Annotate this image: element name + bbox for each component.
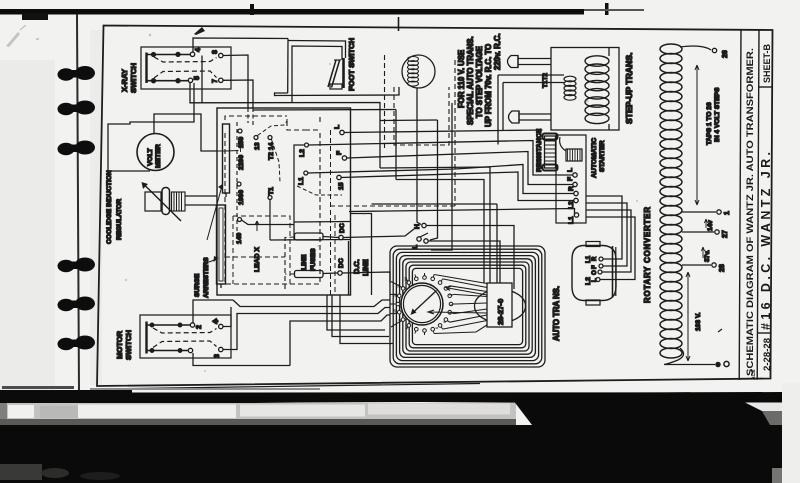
wire down to fan c — [372, 204, 498, 284]
svg-text:L2: L2 — [568, 201, 575, 209]
svg-text:REGULATOR: REGULATOR — [116, 199, 123, 240]
primary big coil — [585, 56, 609, 124]
auto transformer enclosure box — [217, 108, 351, 295]
wire bus y120 — [380, 119, 438, 122]
wire bus y103 — [190, 103, 380, 121]
rotary converter — [572, 242, 616, 306]
converter wires to starter — [586, 196, 622, 259]
nested winding loops — [390, 246, 545, 367]
terminal 15 — [337, 175, 341, 179]
terminal DC1 — [339, 235, 343, 239]
fan wires — [434, 275, 487, 334]
svg-text:250: 250 — [238, 136, 245, 148]
fuse feed dashed riser — [285, 237, 295, 291]
page edge line — [77, 14, 79, 393]
inner dashed sub-box — [233, 216, 290, 284]
pedal plate — [342, 58, 345, 88]
dashed aux wire — [330, 205, 455, 207]
motor switch S2 — [140, 315, 231, 358]
right paper margin — [782, 383, 800, 483]
svg-text:FOOT SWITCH: FOOT SWITCH — [347, 38, 356, 91]
svg-text:37v.: 37v. — [704, 250, 711, 262]
tap 27 — [682, 231, 714, 233]
tap 1900 — [237, 182, 241, 186]
svg-text:AUTOMATIC: AUTOMATIC — [591, 138, 598, 178]
arrow to arrester 1 — [207, 186, 222, 240]
svg-text:2: 2 — [449, 294, 453, 296]
wire 140 right — [242, 220, 295, 225]
wire w2 — [223, 307, 231, 327]
svg-text:28-27-0: 28-27-0 — [496, 299, 505, 325]
volt meter M1 — [137, 114, 217, 171]
wire w7 dc drop — [340, 295, 393, 344]
wire y240 — [270, 239, 351, 242]
wire L bus — [344, 130, 543, 133]
wire v1 from special trans down to H — [417, 88, 421, 225]
wire fuse1 to DC1 — [323, 237, 339, 238]
light gap band — [0, 403, 516, 425]
svg-text:7: 7 — [212, 79, 219, 83]
svg-text:LINE: LINE — [301, 254, 308, 270]
svg-text:2-28-28: 2-28-28 — [762, 337, 773, 371]
svg-text:L2: L2 — [299, 149, 306, 157]
converter terminals — [599, 257, 603, 261]
special auto trans T3 — [402, 55, 435, 88]
svg-text:LEAD X: LEAD X — [254, 247, 261, 272]
svg-text:9: 9 — [398, 319, 402, 321]
svg-text:L1: L1 — [568, 216, 575, 224]
wire bus y110 — [253, 109, 396, 112]
starter terminal L2 — [574, 198, 578, 202]
svg-text:27: 27 — [722, 230, 729, 238]
winding dashed line — [236, 122, 238, 240]
brush oval — [475, 283, 526, 327]
dial body — [401, 283, 443, 325]
L knife switch — [417, 237, 421, 241]
svg-text:H: H — [414, 224, 421, 229]
wire down to fan b — [380, 167, 490, 284]
svg-text:#16 D.C. WANTZ JR.: #16 D.C. WANTZ JR. — [759, 152, 773, 330]
svg-text:DC: DC — [339, 223, 346, 233]
svg-text:15: 15 — [338, 182, 345, 190]
wire 15 bus — [341, 172, 574, 201]
svg-text:MOTOR: MOTOR — [115, 330, 124, 359]
tap T2 14 — [268, 136, 272, 140]
paper edge scribbles — [2, 386, 74, 389]
svg-text:T1: T1 — [268, 187, 275, 195]
tap L2 — [305, 143, 309, 147]
svg-text:2: 2 — [196, 325, 203, 329]
svg-text:LINE: LINE — [361, 259, 370, 276]
tap 2200-250 — [238, 129, 242, 133]
svg-text:FUSES: FUSES — [310, 248, 317, 271]
wire v3 — [431, 103, 452, 250]
svg-text:F: F — [336, 151, 343, 155]
arrow to arrester 2 — [209, 259, 217, 262]
wire from pin 7 right — [223, 80, 253, 108]
svg-text:L1: L1 — [585, 255, 592, 263]
svg-text:ARRESTERS: ARRESTERS — [203, 257, 210, 298]
wire from DC1 right — [343, 229, 414, 238]
wire H terminal — [422, 223, 426, 227]
fuse holder 1 — [508, 56, 552, 68]
svg-text:26: 26 — [722, 50, 729, 58]
svg-text:SWITCH: SWITCH — [129, 63, 138, 93]
svg-text:SCHEMATIC DIAGRAM OF WANTZ: SCHEMATIC DIAGRAM OF WANTZ JR. AUTO TRAN… — [745, 48, 756, 376]
X-ray switch S1 — [141, 47, 231, 89]
svg-text:R: R — [568, 186, 575, 191]
tap 0 bottom — [664, 348, 715, 365]
tap 13 — [254, 136, 258, 140]
svg-text:SWITCH: SWITCH — [124, 330, 133, 360]
wire F bus — [347, 152, 573, 185]
svg-text:SURGE: SURGE — [194, 273, 201, 297]
svg-text:4: 4 — [448, 313, 452, 315]
wire to tap 2200 — [217, 150, 239, 153]
wire through box down — [201, 56, 203, 104]
dc line outer compartment — [351, 214, 372, 296]
svg-text:11: 11 — [393, 293, 397, 297]
svg-text:L: L — [334, 125, 341, 129]
svg-text:METER: METER — [155, 144, 162, 168]
svg-text:10: 10 — [393, 309, 397, 313]
wire from pin 4 up and right — [193, 38, 288, 52]
wires fuse to coil — [498, 75, 564, 145]
special auto trans dashed box — [384, 55, 386, 150]
starter terminal L1 — [574, 213, 578, 217]
svg-text:UP FROM 70v. R.C. TO: UP FROM 70v. R.C. TO — [484, 44, 493, 127]
left tap connectors — [390, 282, 399, 328]
resistance R1 — [543, 134, 558, 171]
svg-text:TO STEP VOLTAGE: TO STEP VOLTAGE — [475, 46, 484, 118]
svg-text:FOR 110 V. USE: FOR 110 V. USE — [457, 50, 466, 108]
wire from pin 8 right — [223, 55, 248, 108]
main tap coil L3 — [660, 44, 682, 358]
svg-text:F: F — [592, 265, 598, 269]
top scan strip — [0, 9, 584, 15]
step-up transformer T2 — [551, 48, 619, 131]
title block — [739, 30, 772, 380]
wire from bottom down right — [193, 353, 290, 366]
svg-text:5: 5 — [443, 321, 447, 323]
terminal F — [342, 156, 346, 160]
inner dashed box — [225, 116, 320, 284]
svg-text:COOLIDGE INDUCTION: COOLIDGE INDUCTION — [106, 170, 113, 244]
wire fuse2 to DC2 — [323, 272, 338, 275]
svg-text:14v: 14v — [707, 220, 714, 231]
wire down to fan a — [396, 180, 484, 284]
Coolidge induction regulator — [142, 182, 186, 221]
line fuse F1 — [295, 233, 324, 278]
wire from DC2 right — [342, 272, 390, 283]
svg-text:220v. R.C.: 220v. R.C. — [493, 33, 502, 70]
svg-text:STARTER: STARTER — [599, 140, 606, 172]
103V arrow — [686, 272, 690, 361]
tap 1 — [682, 211, 716, 213]
lower-left wire staircase — [233, 300, 390, 307]
svg-text:1: 1 — [724, 211, 731, 215]
svg-text:8: 8 — [212, 50, 219, 54]
svg-text:AUTO TRA NS.: AUTO TRA NS. — [552, 286, 561, 341]
svg-text:28: 28 — [719, 264, 726, 272]
svg-text:140: 140 — [236, 232, 243, 244]
wire from pin2 up right — [193, 300, 233, 323]
tap T1 — [268, 196, 272, 200]
schematic frame — [97, 26, 773, 390]
svg-text:DC: DC — [338, 258, 345, 268]
svg-text:6: 6 — [435, 327, 439, 329]
svg-text:13: 13 — [254, 142, 261, 150]
foot switch — [288, 39, 346, 103]
svg-text:ROTARY CONVERTER: ROTARY CONVERTER — [643, 207, 652, 303]
svg-text:TAPS 1 TO 26: TAPS 1 TO 26 — [706, 102, 713, 145]
svg-text:13: 13 — [404, 277, 408, 281]
wires from regulator — [185, 195, 217, 197]
svg-text:R: R — [592, 256, 598, 261]
svg-text:IN 4 VOLT STEPS: IN 4 VOLT STEPS — [714, 87, 721, 142]
starter terminal L — [573, 173, 577, 177]
starter terminal R — [574, 191, 578, 195]
svg-text:L1: L1 — [298, 177, 305, 185]
small mark — [718, 329, 722, 332]
svg-text:L: L — [567, 168, 574, 172]
secondary small coil — [564, 76, 576, 100]
wire pair from pin 5 down — [189, 83, 191, 104]
wire L1t bus — [308, 165, 574, 194]
tap 28 — [682, 264, 711, 266]
pen tick mark — [398, 17, 400, 31]
coil top terminal 26 — [680, 46, 711, 50]
svg-text:X-RAY: X-RAY — [120, 69, 129, 92]
wire w5 from box bottom — [327, 295, 385, 330]
svg-text:4: 4 — [195, 48, 202, 52]
svg-text:L2: L2 — [585, 277, 592, 285]
starter terminal F — [573, 182, 577, 186]
wire w3 — [223, 308, 390, 350]
svg-text:ACE: ACE — [751, 369, 757, 380]
terminal L — [340, 130, 344, 134]
dc compartment line — [348, 241, 350, 295]
wire w4 — [290, 315, 390, 366]
dashed wire y257 — [225, 256, 285, 258]
wire L2 bus to starter L — [309, 141, 574, 176]
svg-text:103 V.: 103 V. — [695, 312, 702, 331]
svg-text:3: 3 — [214, 354, 221, 358]
automatic starter — [556, 135, 586, 223]
svg-text:2200: 2200 — [238, 155, 245, 170]
svg-text:RESISTANCE: RESISTANCE — [536, 128, 543, 172]
svg-text:O: O — [592, 270, 598, 275]
tap L1 — [304, 171, 308, 175]
svg-text:SHEET-B: SHEET-B — [762, 43, 772, 83]
wire v396 — [395, 110, 397, 180]
wire w6 — [332, 295, 389, 337]
dial taps — [394, 273, 456, 335]
svg-text:5: 5 — [194, 76, 201, 80]
wire bus y96 — [274, 87, 399, 96]
svg-text:VOLT: VOLT — [147, 148, 154, 166]
bottom-left gray texture — [0, 464, 42, 480]
surge arresters — [217, 124, 230, 288]
taps arrow — [695, 65, 699, 205]
svg-text:STEP-UP TRANS.: STEP-UP TRANS. — [624, 53, 634, 124]
wire junction right — [294, 221, 351, 224]
wire L1 long bus — [349, 209, 575, 216]
terminal DC2 — [338, 271, 342, 275]
wire v380 — [379, 121, 381, 169]
pen arrow mark — [194, 27, 205, 35]
tap 140 — [238, 218, 242, 222]
brush arrows — [446, 287, 487, 296]
svg-text:D.C.: D.C. — [352, 259, 361, 274]
binding holes — [58, 66, 96, 350]
wire v2 — [430, 120, 438, 240]
auto transformer dial assembly — [390, 246, 545, 367]
wire foot switch bottom left — [274, 93, 288, 96]
svg-text:L: L — [592, 278, 598, 282]
main black band with wedge — [0, 392, 782, 483]
thin wavy black strip — [0, 390, 690, 407]
pencil scribbles top-left — [6, 32, 20, 47]
white notch right — [745, 403, 782, 412]
fuse holder 2 — [509, 111, 552, 123]
svg-text:T2 14: T2 14 — [268, 142, 275, 160]
svg-text:SPECIAL AUTO TRANS.: SPECIAL AUTO TRANS. — [466, 36, 475, 125]
svg-text:F: F — [567, 177, 574, 181]
svg-text:3: 3 — [450, 304, 454, 306]
